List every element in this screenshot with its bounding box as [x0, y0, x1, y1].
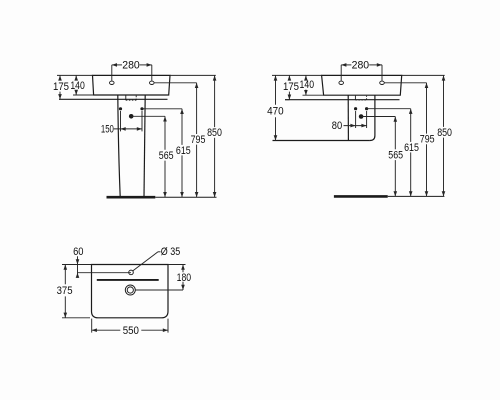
dimension 280 tap hole spacing (semi-pedestal view) — [341, 60, 382, 81]
svg-text:795: 795 — [420, 134, 435, 146]
drain outline hidden dashed (pedestal version) — [126, 95, 136, 100]
svg-text:470: 470 — [267, 106, 284, 118]
fixing hole left dot (pedestal version) — [119, 107, 122, 110]
drain hole inner circle (plan view) — [127, 287, 133, 293]
dimension 795 tap hole height (right view) — [384, 83, 434, 197]
svg-text:180: 180 — [177, 272, 192, 284]
svg-text:375: 375 — [57, 285, 73, 297]
tap hole (plan view) — [129, 270, 134, 275]
leader line diameter 35 (plan view) — [133, 252, 161, 271]
fixing hole right dot (pedestal version) — [140, 107, 143, 110]
svg-text:850: 850 — [207, 127, 222, 139]
svg-text:795: 795 — [191, 134, 206, 146]
pedestal left edge — [118, 95, 120, 197]
fixing hole left dot (semi-pedestal version) — [354, 107, 357, 110]
svg-text:80: 80 — [332, 120, 342, 132]
svg-text:280: 280 — [352, 60, 370, 72]
basin apron bottom ledge (semi-pedestal view) — [285, 99, 400, 101]
tap hole left (front view) — [110, 81, 115, 84]
drain centre dot (pedestal version) — [129, 114, 134, 119]
svg-text:565: 565 — [388, 150, 403, 162]
dimension 850 rim height (left view) — [170, 75, 222, 197]
dimension 140 basin height (left view) — [70, 75, 94, 95]
drain outline hidden dashed (semi-pedestal version) — [355, 96, 366, 100]
washbasin plan view outline — [92, 265, 169, 318]
svg-text:60: 60 — [73, 246, 83, 258]
dimension 175 rim-to-ledge height (right view) — [283, 75, 299, 99]
drain hole outer circle (plan view) — [125, 285, 135, 295]
dimension 280 tap hole spacing (left view) — [112, 60, 152, 81]
svg-text:550: 550 — [123, 325, 139, 337]
dimension 60 tap hole offset (plan view) — [62, 246, 131, 278]
svg-text:140: 140 — [70, 80, 85, 92]
svg-text:140: 140 — [300, 79, 315, 91]
washbasin body (front view with semi-pedestal) — [322, 75, 402, 95]
dimension 615 fixing hole height (right view) — [367, 109, 419, 197]
dimension 140 basin height (right view) — [300, 75, 324, 95]
dimension 550 basin width (plan view) — [92, 319, 168, 337]
drain centre dot (semi-pedestal version) — [359, 114, 364, 119]
svg-text:Ø 35: Ø 35 — [161, 246, 180, 258]
pedestal right edge — [144, 95, 145, 197]
svg-text:175: 175 — [283, 81, 299, 93]
floor line (pedestal version) — [107, 196, 217, 199]
semi-pedestal left edge — [347, 95, 349, 140]
dimension 565 drain height (left view) — [131, 116, 173, 197]
tap hole left (semi-pedestal view) — [339, 81, 344, 84]
dimension 80 fixing hole spacing (semi-pedestal view) — [332, 111, 367, 132]
fixing hole right dot (semi-pedestal version) — [365, 107, 368, 110]
dimension 615 fixing hole height (left view) — [142, 109, 191, 197]
dimension 180 drain offset (plan view) — [135, 265, 191, 291]
dimension 850 rim height (right view) — [402, 75, 452, 196]
dimension 375 basin depth (plan view) — [57, 265, 90, 318]
svg-text:615: 615 — [176, 145, 191, 157]
svg-text:565: 565 — [159, 150, 174, 162]
dimension 175 rim-to-ledge height (left view) — [53, 75, 93, 99]
rear shelf slot line (plan view) — [97, 279, 159, 281]
semi-pedestal bottom edge — [273, 140, 370, 142]
dimension 795 tap hole height (left view) — [154, 83, 205, 197]
svg-text:150: 150 — [101, 124, 114, 136]
floor line (semi-pedestal version) — [334, 195, 445, 198]
svg-text:175: 175 — [53, 81, 69, 93]
washbasin body (front view with pedestal) — [93, 75, 171, 95]
label diameter 35 (plan view) — [161, 246, 180, 258]
tap hole right (front view) — [150, 81, 155, 84]
tap hole right (semi-pedestal view) — [380, 81, 385, 84]
semi-pedestal right edge with rounded corner — [370, 95, 375, 140]
dimension 470 semi-pedestal height (right view) — [267, 75, 321, 140]
basin apron bottom ledge (front view) — [59, 98, 168, 100]
svg-text:280: 280 — [122, 60, 140, 72]
dimension 565 drain height (right view) — [361, 117, 403, 197]
svg-text:615: 615 — [404, 142, 419, 154]
dimension 150 fixing hole spacing (left view) — [101, 111, 142, 136]
svg-text:850: 850 — [437, 127, 452, 139]
